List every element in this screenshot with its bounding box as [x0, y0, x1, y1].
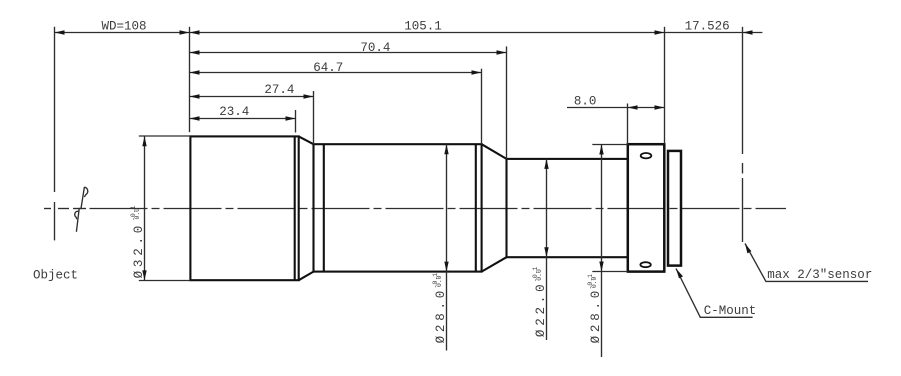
dimension 27.4	[190, 83, 314, 99]
C-Mount leader	[676, 269, 756, 318]
svg-text:-0.1: -0.1	[432, 273, 439, 289]
dimension diameter 32	[130, 136, 147, 280]
mount flange (Ø28)	[628, 144, 665, 271]
chamfer front barrel to mid barrel	[299, 136, 314, 280]
dimension 23.4	[190, 105, 296, 121]
dimension diameter 28 mid	[432, 144, 449, 350]
max 2/3 sensor leader	[745, 244, 872, 282]
svg-text:70.4: 70.4	[360, 41, 390, 55]
dimension 70.4	[190, 41, 507, 55]
extension line 27.4	[313, 91, 315, 144]
dimension 8.0	[567, 95, 665, 110]
svg-text:-0.1: -0.1	[130, 205, 137, 221]
extension line 70.4	[506, 46, 508, 158]
svg-text:64.7: 64.7	[313, 61, 343, 75]
small barrel (Ø22)	[507, 159, 628, 257]
extension lines diameter 32	[139, 136, 191, 281]
extension line 8.0 left	[627, 104, 629, 145]
dimension diameter 28 flange	[587, 145, 604, 358]
extension line 23.4	[295, 110, 297, 133]
optical axis centerline	[44, 208, 786, 210]
dimension WD=108	[55, 19, 190, 34]
flange screw hole bottom	[640, 262, 650, 267]
flange screw hole top	[641, 153, 652, 158]
svg-text:C-Mount: C-Mount	[704, 304, 757, 318]
svg-text:Ø32.0: Ø32.0	[132, 222, 146, 279]
svg-text:8.0: 8.0	[574, 95, 597, 109]
dimension diameter 22	[532, 159, 549, 340]
svg-text:-0.1: -0.1	[532, 266, 539, 282]
extension lines flange diameter 28	[592, 145, 628, 272]
svg-text:Ø28.0: Ø28.0	[434, 287, 448, 344]
svg-text:-0.1: -0.1	[587, 274, 594, 290]
axis break symbol	[75, 187, 88, 232]
svg-text:Object: Object	[33, 269, 78, 283]
sensor plane line	[742, 27, 744, 242]
extension line 64.7	[481, 69, 483, 145]
svg-text:27.4: 27.4	[264, 83, 294, 97]
svg-text:Ø28.0: Ø28.0	[589, 287, 603, 344]
dimension 17.526	[665, 19, 763, 34]
svg-text:23.4: 23.4	[219, 105, 249, 119]
dimension 105.1	[190, 19, 665, 34]
C-mount ring	[668, 151, 681, 266]
svg-text:max 2/3″sensor: max 2/3″sensor	[767, 268, 872, 282]
svg-text:WD=108: WD=108	[102, 19, 147, 33]
svg-text:17.526: 17.526	[685, 19, 730, 33]
taper mid barrel to small barrel	[482, 144, 507, 271]
svg-text:Ø22.0: Ø22.0	[534, 281, 548, 338]
extension line flange face	[664, 27, 666, 144]
mid barrel (Ø28)	[314, 144, 482, 271]
object plane line	[54, 27, 56, 241]
dimension 64.7	[190, 61, 482, 75]
svg-text:105.1: 105.1	[404, 19, 442, 33]
extension line front face	[189, 27, 191, 132]
front barrel (Ø32)	[190, 136, 298, 280]
